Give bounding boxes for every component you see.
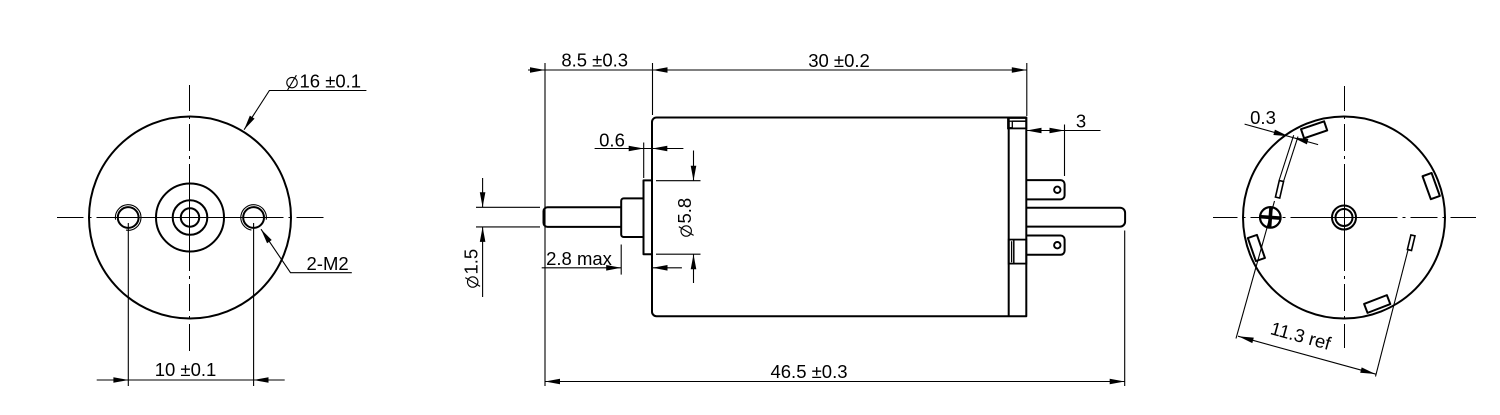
crimp slot right	[1423, 173, 1440, 199]
svg-text:16 ±0.1: 16 ±0.1	[300, 70, 362, 91]
crimp slot top	[1301, 121, 1327, 138]
svg-text:5.8: 5.8	[674, 198, 695, 224]
front flange ring	[644, 180, 653, 254]
thread arc right hole	[241, 205, 267, 230]
front shaft	[544, 207, 622, 227]
rear shaft circle	[1336, 209, 1353, 226]
dimension 11.3 ref	[1236, 201, 1408, 377]
svg-text:30 ±0.2: 30 ±0.2	[808, 50, 870, 71]
lower terminal	[1026, 236, 1064, 255]
upper terminal hole	[1054, 187, 1060, 193]
centerline horizontal rear view	[1213, 217, 1476, 219]
leader 2-M2	[259, 228, 352, 273]
svg-text:8.5 ±0.3: 8.5 ±0.3	[561, 50, 628, 71]
svg-text:2.8 max: 2.8 max	[546, 248, 613, 269]
motor body	[652, 118, 1026, 317]
svg-text:3: 3	[1076, 111, 1086, 132]
lower terminal hole	[1054, 242, 1060, 248]
upper terminal	[1026, 180, 1064, 199]
shaft circle	[181, 208, 199, 226]
centerline vertical front view	[189, 85, 191, 351]
svg-text:46.5 ±0.3: 46.5 ±0.3	[770, 361, 847, 382]
svg-text:1.5: 1.5	[461, 249, 482, 275]
dimension 8.5 +-0.3 and 30 +-0.2 shared line	[528, 50, 1027, 386]
label d16 +-0.1	[287, 70, 361, 91]
svg-text:0.3: 0.3	[1250, 107, 1276, 128]
terminal cross mark	[1259, 206, 1282, 229]
rear end cap line	[1008, 118, 1010, 317]
crimp slot left	[1248, 235, 1265, 261]
vent slot lower-right	[1407, 235, 1415, 251]
svg-text:10 ±0.1: 10 ±0.1	[155, 359, 217, 380]
thread arc left hole	[115, 205, 141, 231]
leader d16	[242, 91, 367, 132]
rear shaft stub	[1026, 208, 1125, 227]
front bearing boss	[621, 198, 643, 237]
centerline horizontal front view	[57, 217, 324, 219]
vent slot upper-left	[1275, 181, 1283, 199]
dimension 0.6 flange width	[595, 130, 684, 179]
mounting hole M2 left	[118, 207, 139, 228]
rear bearing circle	[1332, 206, 1356, 230]
crimp slot bottom	[1364, 295, 1390, 313]
dimension 46.5 +-0.3 overall length	[545, 231, 1125, 387]
dimension 0.3 slot width	[1245, 107, 1319, 181]
svg-text:2-M2: 2-M2	[307, 253, 349, 274]
dimension 3 terminal length	[1027, 111, 1101, 177]
rear cap outer circle	[1243, 117, 1445, 319]
motor case outer circle d16	[89, 117, 291, 319]
front bearing boss circle	[156, 184, 224, 252]
dimension 10 +-0.1	[97, 223, 285, 386]
dimension 2.8 max boss protrusion	[542, 245, 682, 275]
svg-text:0.6: 0.6	[599, 130, 625, 151]
dimension d5.8 flange diameter	[656, 151, 701, 284]
centerline vertical rear view	[1344, 86, 1346, 348]
mounting hole M2 right	[243, 207, 264, 228]
top crimp tab	[1008, 118, 1026, 128]
bottom crimp tab	[1009, 240, 1027, 264]
dimension d1.5 shaft diameter	[461, 178, 541, 297]
bearing circle	[173, 200, 208, 235]
